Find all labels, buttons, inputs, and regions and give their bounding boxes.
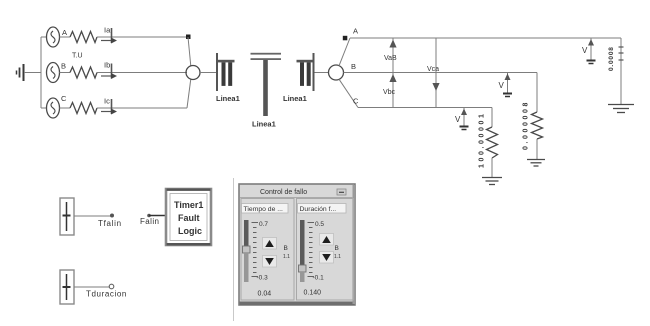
source SA <box>47 27 60 47</box>
wire diagonal J2 to A <box>339 38 350 66</box>
wire neutral to bus <box>24 72 41 74</box>
load 1 resistor (vertical) <box>487 127 498 158</box>
svg-text:Linea1: Linea1 <box>283 94 307 103</box>
svg-text:Duración f...: Duración f... <box>300 206 337 213</box>
wire load 2 to ground <box>536 139 538 159</box>
svg-text:1.1: 1.1 <box>334 254 341 260</box>
control window Control de fallo <box>239 184 355 305</box>
svg-text:A: A <box>62 28 67 37</box>
spin buttons Tiempo <box>263 238 277 268</box>
node dot right A <box>343 36 348 41</box>
TACS source Tduracion <box>60 270 74 304</box>
svg-text:Tiempo de ...: Tiempo de ... <box>244 206 284 213</box>
voltage probe Vca (branch A-C) <box>427 38 440 108</box>
svg-text:Ia: Ia <box>104 26 111 35</box>
unit label Duracion <box>334 245 341 260</box>
ground load 2 <box>527 160 545 167</box>
svg-text:100.00001: 100.00001 <box>479 112 486 169</box>
svg-text:Tfalin: Tfalin <box>98 219 122 228</box>
svg-text:A: A <box>353 27 358 36</box>
scale Tiempo <box>252 223 259 277</box>
node circle Tduracion <box>109 284 114 289</box>
svg-text:Falin: Falin <box>140 217 159 226</box>
wire diagonal C to collector <box>187 79 191 108</box>
svg-text:Logic: Logic <box>178 226 202 236</box>
collector circle J2 <box>329 65 344 80</box>
ground GS (source neutral, rotated left) <box>17 64 24 81</box>
source SC <box>47 98 60 118</box>
node dot Falin <box>147 214 151 218</box>
node dot left A <box>186 35 191 40</box>
svg-text:0.0008: 0.0008 <box>608 46 615 71</box>
scale labels Tiempo <box>257 221 269 282</box>
voltage probe V (line B, to ground) <box>499 73 513 97</box>
wire row A right <box>350 37 621 39</box>
load 2 resistor (vertical) <box>532 112 543 139</box>
wire line A down to ground (right end) <box>620 38 622 104</box>
svg-text:Tduracion: Tduracion <box>86 290 127 299</box>
svg-text:B: B <box>284 245 288 252</box>
svg-text:B: B <box>335 245 339 252</box>
group Tiempo de <box>241 199 294 301</box>
svg-text:0.5: 0.5 <box>315 221 324 228</box>
wire source B to resistor <box>60 72 71 74</box>
resistor RA <box>70 32 97 43</box>
svg-text:0.04: 0.04 <box>258 291 272 298</box>
svg-text:C: C <box>353 97 359 106</box>
scale labels Duracion <box>313 221 325 282</box>
TACS source Tfalin <box>60 198 74 235</box>
svg-text:Control de fallo: Control de fallo <box>260 189 307 196</box>
wire Tfalin output <box>74 215 112 217</box>
line model Linea1 (middle, vertical fault branch) <box>251 53 282 116</box>
wire source A to resistor <box>60 36 71 38</box>
wire line B down to load 2 <box>536 73 538 113</box>
wire row B <box>97 72 187 74</box>
unit label Tiempo <box>283 245 290 260</box>
component ticks on right-end branch <box>619 47 624 60</box>
svg-text:Linea1: Linea1 <box>216 94 240 103</box>
svg-text:Timer1: Timer1 <box>174 200 203 210</box>
svg-text:0.000008: 0.000008 <box>523 100 530 150</box>
wire Tduracion output <box>74 286 110 288</box>
line model Linea1 (left block) <box>216 53 235 91</box>
voltage probe VaB (branch A-B) <box>384 38 397 73</box>
voltage probe Vbc (branch B-C) <box>383 73 397 108</box>
voltage probe V (line C, to ground) <box>455 108 469 130</box>
wire row A <box>97 36 188 38</box>
wire diagonal J2 to C <box>339 79 358 107</box>
wire source C to resistor <box>60 107 71 109</box>
current probe Ib <box>101 61 117 80</box>
svg-text:1.1: 1.1 <box>283 254 290 260</box>
wire load 1 to ground <box>491 158 493 177</box>
svg-text:Linea1: Linea1 <box>252 120 276 129</box>
wire row C <box>97 107 187 109</box>
svg-text:Vca: Vca <box>427 66 439 73</box>
slider Tiempo <box>243 220 251 282</box>
current probe Ia <box>101 26 117 44</box>
svg-text:Fault: Fault <box>178 213 200 223</box>
group Duracion <box>297 199 354 301</box>
wire Falin to timer box <box>149 215 166 217</box>
svg-text:T.U: T.U <box>72 53 83 60</box>
svg-text:0.7: 0.7 <box>259 221 268 228</box>
line model Linea1 (right block) <box>297 53 315 91</box>
svg-text:VaB: VaB <box>384 55 397 62</box>
collector circle J1 <box>186 66 200 80</box>
svg-text:V: V <box>582 46 588 55</box>
wire J1 to line block 1 <box>200 72 216 74</box>
svg-text:V: V <box>499 81 505 90</box>
wire bus to source C <box>41 107 47 109</box>
MODELS block Timer Fault Logic <box>166 189 211 246</box>
ground load 1 <box>482 178 502 185</box>
svg-text:C: C <box>61 94 67 103</box>
svg-text:-0.1: -0.1 <box>313 275 325 282</box>
svg-text:-0.3: -0.3 <box>257 275 269 282</box>
wire J2 to row B right <box>344 72 538 74</box>
node dot Tfalin <box>110 214 114 218</box>
spin buttons Duracion <box>320 234 334 264</box>
svg-text:B: B <box>61 62 66 71</box>
voltage probe V (line A, to ground) <box>582 38 596 64</box>
wire row C right <box>358 107 492 109</box>
svg-text:B: B <box>351 62 356 71</box>
source SB <box>47 63 60 83</box>
svg-text:Vbc: Vbc <box>383 89 396 96</box>
svg-text:Ic: Ic <box>104 97 110 106</box>
scale Duracion <box>308 223 315 277</box>
svg-text:0.140: 0.140 <box>304 290 322 297</box>
slider Duracion <box>299 220 307 282</box>
wire diagonal A to collector <box>188 37 191 66</box>
current probe Ic <box>101 97 117 115</box>
svg-text:V: V <box>455 115 461 124</box>
resistor RB <box>70 67 97 78</box>
svg-text:Ib: Ib <box>104 61 110 70</box>
wire line block 2 to J2 <box>315 72 329 74</box>
ground right end <box>608 105 634 113</box>
page border line <box>233 178 235 321</box>
wire bus to source A <box>41 36 47 38</box>
wire source bus <box>40 37 42 108</box>
wire line C down to load 1 <box>491 108 493 128</box>
resistor RC <box>70 103 97 114</box>
